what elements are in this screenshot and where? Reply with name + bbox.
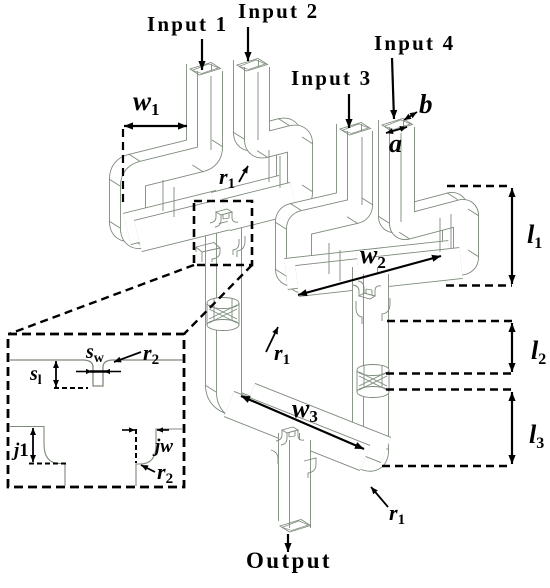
input2 mouth: [237, 59, 268, 72]
arrow s1: [55, 361, 57, 387]
input2 loop inner hole edges: [268, 150, 270, 182]
wire: w3 run: [229, 396, 386, 458]
svg-text:jw: jw: [152, 436, 173, 457]
input1 mouth: [190, 63, 221, 76]
dashed connector right: [184, 265, 252, 334]
wire: pair34 junction stub: [365, 267, 376, 366]
dashed ref line w1: [122, 129, 124, 203]
arrow j1: [32, 428, 34, 462]
svg-text:Input 1: Input 1: [147, 12, 228, 36]
dashed detail box: [8, 334, 184, 487]
svg-text:j1: j1: [11, 440, 29, 461]
arrow w3: [241, 396, 364, 449]
arrow r1 mid: [266, 327, 278, 352]
svg-text:Output: Output: [246, 548, 332, 573]
input3 loop inner hole edges: [339, 250, 341, 281]
arrow w2: [298, 256, 441, 295]
dashed l2 bottom: [386, 372, 512, 375]
wire: w2 run input3 side: [286, 265, 378, 281]
dashed l3 bottom: [382, 465, 512, 468]
dashed l1 top: [447, 185, 512, 188]
junction1 left iris step: [196, 243, 220, 263]
dashed s1 ref: [54, 387, 88, 389]
junction1 right iris step: [237, 236, 245, 257]
arrow input2: [247, 27, 249, 61]
arrow w1: [124, 125, 187, 127]
arrow input3: [348, 94, 350, 128]
junction2 septum detail: [353, 281, 381, 299]
junction2 iris steps: [382, 298, 390, 321]
dashed zoom box: [194, 201, 252, 265]
arrow r2 top: [114, 352, 141, 362]
wire: input1 duct: [109, 64, 223, 248]
wire: input2 duct: [233, 60, 313, 215]
input4 tube back edge: [400, 133, 402, 222]
arrow input1: [201, 39, 203, 70]
output mouth: [280, 520, 311, 533]
wire: input3 duct: [275, 124, 373, 293]
dashed l3 top: [386, 388, 512, 391]
svg-text:Input 4: Input 4: [374, 31, 455, 55]
junction1 septum detail: [210, 209, 238, 227]
arrow r1 upper: [239, 166, 248, 182]
detail left step j1: [10, 427, 65, 487]
detail right step jw: [136, 429, 182, 486]
input3 mouth: [340, 123, 371, 136]
wire: pair34 down-tube + right w3 elbow: [336, 271, 389, 469]
arrow output: [287, 534, 289, 552]
dashed l1 bottom: [446, 284, 512, 287]
choke flange joint 2: [357, 365, 389, 398]
input4 mouth: [382, 119, 413, 132]
output tee iris steps: [304, 458, 316, 478]
arrow jw: [122, 429, 135, 431]
detail top wall with slot s: [10, 360, 183, 386]
arrow l1: [511, 188, 513, 284]
arrow input4: [392, 58, 394, 119]
arrow l3: [511, 392, 513, 464]
arrow a: [386, 127, 407, 133]
input1 loop inner hole edges: [173, 187, 175, 217]
choke flange joint 1: [207, 298, 239, 331]
dashed j1 ref: [29, 463, 66, 465]
wire: w2 run input4 side: [358, 256, 461, 273]
w3 junction septum detail: [276, 427, 304, 445]
input3 tube back edge: [361, 137, 363, 205]
wire: output tube: [289, 433, 300, 528]
svg-text:Input 3: Input 3: [291, 66, 372, 90]
svg-text:Input 2: Input 2: [238, 0, 319, 23]
wire: B-run input2 side: [215, 191, 294, 215]
arrow r2 bottom: [141, 465, 155, 472]
arrow l2: [511, 323, 513, 372]
input2 tube back edge: [257, 72, 259, 140]
arrow b: [404, 112, 417, 120]
wire: input4 duct: [378, 120, 479, 275]
dashed jw ref: [135, 429, 137, 463]
dashed connector left: [9, 265, 194, 334]
svg-text:b: b: [419, 89, 433, 119]
arrow r1 bottom: [371, 487, 388, 507]
wire: pair12 down-tube + left w3 elbow: [205, 211, 262, 420]
input4 loop inner hole edges: [439, 218, 441, 252]
wire: B-run input1 side: [127, 206, 231, 236]
arrow sw: [76, 371, 92, 373]
input1 tube back edge: [210, 76, 212, 150]
dashed l2 top: [387, 320, 512, 323]
